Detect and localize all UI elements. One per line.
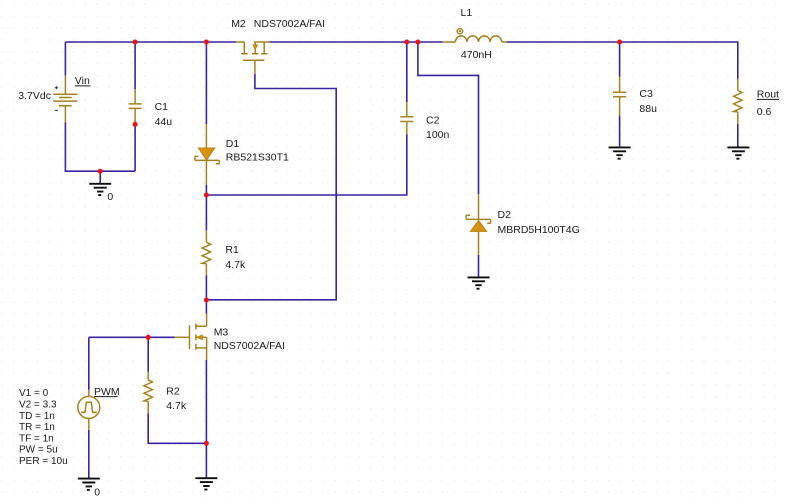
ground at D2 (468, 277, 490, 288)
wire M2 gate net (206, 74, 336, 300)
junction node R1/M3 drain (204, 298, 209, 303)
junction at C1 top (133, 40, 138, 45)
svg-text:D2: D2 (498, 209, 512, 221)
wire D1 cathode to node (205, 185, 207, 195)
resistor R1 4.7k (202, 230, 246, 275)
wire top rail L1 to Rout corner (507, 42, 738, 79)
wire C1 top (134, 42, 136, 89)
mosfet M2 NDS7002A/FAI (231, 18, 325, 74)
pulse source PWM parameter list (19, 388, 68, 467)
wire PWM bottom to ground (88, 430, 90, 479)
svg-text:V2 = 3.3: V2 = 3.3 (19, 400, 57, 411)
voltage source Vin 3.7Vdc (18, 75, 90, 122)
wire C3 bottom to ground (619, 116, 621, 147)
svg-text:R1: R1 (225, 244, 239, 256)
wire PWM top lead (88, 337, 90, 390)
svg-text:RB521S30T1: RB521S30T1 (226, 152, 289, 164)
wire M3 source node to ground (205, 443, 207, 478)
wire PWM to M3 gate (89, 336, 175, 338)
wire ground stub at Vin rail (99, 171, 101, 184)
svg-text:3.7Vdc: 3.7Vdc (18, 90, 51, 102)
svg-text:0.6: 0.6 (757, 106, 772, 118)
wire D2 branch from rail (418, 42, 479, 194)
svg-text:0: 0 (94, 487, 100, 499)
svg-text:PW = 5u: PW = 5u (19, 445, 58, 456)
svg-text:D1: D1 (226, 138, 240, 150)
junction at ground rail (98, 169, 103, 174)
junction node R2/M3 gate (146, 335, 151, 340)
wire top rail left (Vin+ to M2 drain) (65, 41, 236, 43)
junction at D2 branch (415, 40, 420, 45)
wire C1 bottom (134, 124, 136, 171)
junction node M3 source/R2 (204, 441, 209, 446)
wire Rout bottom to ground (737, 124, 739, 147)
svg-text:M2: M2 (231, 18, 246, 30)
svg-text:V1 = 0: V1 = 0 (19, 388, 49, 399)
capacitor C2 100n (400, 102, 449, 141)
inductor L1 470nH (443, 7, 507, 61)
svg-text:R2: R2 (166, 386, 180, 398)
svg-text:C2: C2 (426, 114, 440, 126)
wire R2 bottom to source node (148, 413, 206, 443)
diode D2 MBRD5H100T4G (466, 194, 580, 255)
svg-text:TR = 1n: TR = 1n (19, 422, 55, 433)
wire R2 top (147, 337, 149, 372)
svg-text:4.7k: 4.7k (166, 400, 187, 412)
svg-text:4.7k: 4.7k (225, 259, 246, 271)
resistor Rout 0.6 (734, 79, 779, 124)
svg-text:Rout: Rout (757, 89, 779, 101)
svg-text:TD = 1n: TD = 1n (19, 411, 55, 422)
svg-text:L1: L1 (461, 7, 473, 19)
wire C2 top (406, 42, 408, 102)
svg-text:MBRD5H100T4G: MBRD5H100T4G (498, 224, 580, 236)
svg-text:NDS7002A/FAI: NDS7002A/FAI (214, 340, 285, 352)
svg-text:C1: C1 (155, 101, 169, 113)
ground at C3 (609, 147, 631, 158)
svg-text:44u: 44u (155, 116, 173, 128)
wire node D1/R1 to C2 bottom (206, 134, 406, 195)
junction at C2 top (404, 40, 409, 45)
svg-text:TF = 1n: TF = 1n (19, 433, 54, 444)
svg-text:Vin: Vin (75, 75, 90, 87)
svg-text:M3: M3 (214, 326, 229, 338)
wire D1 anode from rail (205, 42, 207, 124)
wire D2 anode to ground (478, 255, 480, 277)
ground at M3 source (195, 478, 217, 489)
ground 0 at PWM (78, 479, 100, 499)
wire top rail M2 source to L1 (269, 41, 442, 43)
wire C3 top (619, 42, 621, 77)
junction at C3 top (617, 40, 622, 45)
ground at Rout (727, 147, 749, 158)
svg-text:100n: 100n (426, 129, 450, 141)
ground 0 at Vin rail (89, 184, 113, 203)
capacitor C3 88u (613, 77, 657, 116)
junction at C1 bottom (133, 122, 138, 127)
wire Vin bottom to ground rail (65, 123, 135, 172)
mosfet M3 NDS7002A/FAI (175, 314, 285, 361)
svg-text:470nH: 470nH (461, 49, 492, 61)
svg-text:PER = 10u: PER = 10u (19, 456, 68, 467)
wire R1 bottom to M3 drain node (205, 276, 207, 314)
junction node D1/R1/C2 (204, 193, 209, 198)
capacitor C1 44u (129, 89, 173, 128)
junction at D1 top (204, 40, 209, 45)
svg-text:88u: 88u (639, 103, 657, 115)
resistor R2 4.7k (144, 372, 187, 414)
svg-text:0: 0 (107, 191, 113, 203)
svg-text:C3: C3 (639, 88, 653, 100)
svg-text:NDS7002A/FAI: NDS7002A/FAI (254, 18, 325, 30)
wire M3 source down (205, 360, 207, 443)
wire R1 top (205, 195, 207, 230)
wire Vin top lead (64, 42, 66, 76)
pulse source PWM (78, 386, 120, 430)
diode D1 RB521S30T1 (195, 124, 289, 185)
